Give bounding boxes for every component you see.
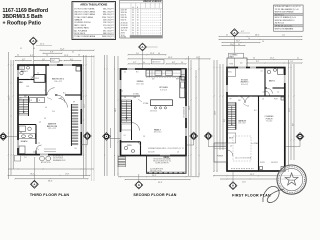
W.I.C. closet bbox=[34, 75, 45, 83]
svg-text:30: 30 bbox=[132, 20, 134, 22]
section marker A bottom (first floor) bbox=[229, 172, 237, 190]
svg-text:4-8: 4-8 bbox=[78, 55, 80, 57]
dimension lines above first floor plan bbox=[218, 35, 302, 64]
svg-text:16R: 16R bbox=[24, 96, 27, 98]
window gaps second floor bbox=[120, 68, 187, 156]
svg-text:W.I.C.: W.I.C. bbox=[51, 60, 56, 62]
bath 1 walls bbox=[265, 68, 285, 97]
section marker A bottom (third floor) bbox=[31, 157, 39, 188]
svg-text:30: 30 bbox=[132, 12, 134, 14]
svg-text:30: 30 bbox=[132, 33, 134, 35]
dining label bbox=[136, 81, 143, 85]
svg-text:7-0: 7-0 bbox=[248, 38, 250, 40]
svg-text:6-0 SL DR: 6-0 SL DR bbox=[148, 152, 154, 154]
svg-text:B: B bbox=[137, 7, 138, 9]
svg-text:4-6: 4-6 bbox=[82, 144, 84, 146]
svg-text:4-0: 4-0 bbox=[143, 62, 145, 64]
covered patio (first floor top-left) bbox=[227, 53, 247, 67]
svg-text:5-0: 5-0 bbox=[37, 73, 39, 75]
svg-text:50: 50 bbox=[137, 25, 139, 27]
bath 3 fixtures bbox=[19, 66, 34, 80]
side section marker right (first floor) bbox=[285, 133, 304, 147]
svg-text:50: 50 bbox=[137, 22, 139, 24]
svg-text:30: 30 bbox=[132, 30, 134, 32]
svg-text:4’-2”: 4’-2” bbox=[241, 31, 245, 33]
svg-text:10’0 x 11’2: 10’0 x 11’2 bbox=[241, 84, 248, 86]
section marker A top (second floor) bbox=[139, 43, 158, 68]
wall between studio and garage bbox=[227, 95, 285, 97]
tiny annotation texts plan areas bbox=[17, 35, 299, 164]
svg-text:8’-6”: 8’-6” bbox=[172, 62, 176, 64]
svg-text:TYP. INT. DR. 2-8 x 6-8 S.C.: TYP. INT. DR. 2-8 x 6-8 S.C. bbox=[275, 26, 294, 28]
svg-text:2-8: 2-8 bbox=[230, 146, 232, 148]
svg-text:9’-0” CLG: 9’-0” CLG bbox=[160, 89, 167, 91]
svg-text:2-8: 2-8 bbox=[143, 136, 145, 138]
svg-text:50: 50 bbox=[137, 30, 139, 32]
side section marker left (first floor) bbox=[204, 132, 227, 147]
svg-text:11-2: 11-2 bbox=[136, 53, 139, 55]
svg-text:11’6 x 11’2: 11’6 x 11’2 bbox=[54, 81, 62, 83]
leader arrow marks bbox=[37, 98, 248, 151]
landing / closet under stair bbox=[122, 124, 132, 130]
window and door schedule table bbox=[120, 0, 163, 38]
double door arcs into garage hall bbox=[238, 96, 252, 103]
svg-text:BEDROOM: BEDROOM bbox=[47, 126, 58, 128]
svg-text:MECH: MECH bbox=[229, 138, 233, 140]
deck below second floor bbox=[147, 156, 187, 174]
covered porch label bbox=[265, 116, 275, 123]
svg-text:TOTAL COVERED AREA: TOTAL COVERED AREA bbox=[74, 35, 96, 38]
svg-text:DINING: DINING bbox=[137, 81, 144, 83]
svg-text:GARAGE: GARAGE bbox=[238, 119, 247, 122]
svg-text:ALL FLR AREA: ALL FLR AREA bbox=[74, 29, 87, 32]
svg-text:3-0: 3-0 bbox=[82, 90, 84, 92]
svg-text:31’-6”: 31’-6” bbox=[9, 95, 11, 100]
svg-text:5-4: 5-4 bbox=[45, 107, 47, 109]
svg-text:50: 50 bbox=[137, 20, 139, 22]
svg-text:36’-0”: 36’-0” bbox=[215, 110, 217, 115]
exterior stair from deck bbox=[118, 156, 126, 168]
studio / bdrm3 labels bbox=[241, 79, 249, 86]
left dimension lines (second floor) bbox=[104, 55, 119, 176]
svg-text:25’-4”: 25’-4” bbox=[270, 58, 275, 60]
kitchen counters top bbox=[146, 69, 185, 80]
svg-text:VERIFY ROUGH OPENINGS: VERIFY ROUGH OPENINGS bbox=[275, 12, 294, 14]
svg-text:11’6 x 20’2: 11’6 x 20’2 bbox=[238, 123, 245, 125]
svg-text:W/ 2x2 PICKETS @ 4” OC: W/ 2x2 PICKETS @ 4” OC bbox=[168, 148, 185, 150]
svg-text:5-0: 5-0 bbox=[186, 90, 188, 92]
left dimension lines (first floor) bbox=[213, 60, 223, 172]
property line 2 bbox=[93, 55, 95, 181]
svg-text:2050 SH: 2050 SH bbox=[121, 9, 128, 11]
svg-text:SLOPE 1/4” PER FT: SLOPE 1/4” PER FT bbox=[155, 163, 168, 165]
svg-text:10’0 x 11’6: 10’0 x 11’6 bbox=[136, 83, 143, 85]
window gaps first floor bbox=[226, 67, 285, 92]
svg-text:33’-4”: 33’-4” bbox=[168, 57, 173, 59]
svg-text:30: 30 bbox=[132, 22, 134, 24]
svg-text:19’0 x 13’2: 19’0 x 13’2 bbox=[154, 132, 162, 134]
master bath walls bbox=[18, 125, 42, 155]
family label bbox=[154, 128, 162, 133]
svg-text:2-6: 2-6 bbox=[21, 68, 23, 70]
signature flourish bbox=[263, 186, 284, 202]
svg-text:6-8: 6-8 bbox=[285, 120, 287, 122]
svg-text:PATIO / DECK: PATIO / DECK bbox=[74, 24, 87, 27]
svg-text:48’-0”: 48’-0” bbox=[255, 35, 260, 37]
svg-text:30 ENTRY: 30 ENTRY bbox=[121, 27, 130, 29]
svg-text:3-2: 3-2 bbox=[33, 152, 35, 154]
svg-text:1ST FLR COND'T AREA: 1ST FLR COND'T AREA bbox=[74, 8, 95, 11]
stairs (first floor) bbox=[228, 103, 236, 130]
parking pad dashed bbox=[233, 136, 251, 161]
hall-bedroom wall with doors bbox=[18, 88, 81, 103]
svg-text:10’-0”: 10’-0” bbox=[230, 44, 235, 46]
svg-text:24’-2”: 24’-2” bbox=[152, 175, 157, 177]
section marker A top (first floor) bbox=[231, 29, 250, 67]
svg-text:9-2: 9-2 bbox=[226, 35, 228, 37]
svg-text:12’-6”: 12’-6” bbox=[64, 55, 69, 57]
svg-text:COVERED PATIO: COVERED PATIO bbox=[74, 27, 89, 30]
svg-text:3-0: 3-0 bbox=[285, 90, 287, 92]
side section marker right (third floor) bbox=[81, 132, 91, 145]
bedroom 2 label bbox=[52, 79, 65, 83]
svg-text:2-8: 2-8 bbox=[44, 118, 46, 120]
svg-text:FIRST FLOOR PLAN: FIRST FLOOR PLAN bbox=[232, 193, 271, 197]
first floor plan group bbox=[204, 29, 304, 198]
svg-text:8’-2”: 8’-2” bbox=[256, 61, 260, 63]
svg-text:41’-2”: 41’-2” bbox=[40, 44, 45, 46]
svg-text:AREA TABULATIONS: AREA TABULATIONS bbox=[80, 3, 107, 7]
svg-text:SECOND FLOOR PLAN: SECOND FLOOR PLAN bbox=[133, 193, 176, 197]
svg-text:4’-2”: 4’-2” bbox=[22, 59, 26, 61]
roof area below plan 1 bbox=[15, 155, 66, 164]
svg-text:5-8: 5-8 bbox=[262, 41, 264, 43]
svg-text:POST: POST bbox=[274, 99, 278, 101]
svg-text:7-4: 7-4 bbox=[46, 55, 48, 57]
roof stairs (third floor, right side) bbox=[59, 99, 79, 147]
svg-text:2264.7 SQ FT: 2264.7 SQ FT bbox=[102, 17, 114, 19]
svg-text:18’-4”: 18’-4” bbox=[30, 173, 35, 175]
svg-text:SLOPE: SLOPE bbox=[260, 162, 265, 164]
svg-text:3BDRM/3.5 Bath: 3BDRM/3.5 Bath bbox=[3, 14, 43, 20]
bottom dimension lines (second floor) bbox=[118, 175, 200, 184]
svg-text:882.1 SQ FT: 882.1 SQ FT bbox=[103, 11, 114, 13]
svg-text:POST: POST bbox=[230, 64, 234, 66]
svg-text:28’-6”: 28’-6” bbox=[115, 107, 117, 112]
svg-text:118.2 SQ FT: 118.2 SQ FT bbox=[103, 22, 114, 24]
svg-text:50: 50 bbox=[137, 17, 139, 19]
svg-text:6’-0”: 6’-0” bbox=[70, 59, 74, 61]
svg-text:THIRD FLOOR PLAN: THIRD FLOOR PLAN bbox=[30, 193, 69, 197]
svg-text:BATH 1: BATH 1 bbox=[269, 80, 275, 83]
svg-text:UP: UP bbox=[230, 99, 232, 101]
svg-text:16x7 OH: 16x7 OH bbox=[121, 30, 128, 32]
svg-text:9’-2”: 9’-2” bbox=[133, 62, 137, 64]
svg-text:20-2: 20-2 bbox=[224, 119, 226, 122]
svg-text:2ND FLR CLG: 2ND FLR CLG bbox=[275, 23, 285, 25]
svg-text:GARAGE: GARAGE bbox=[74, 18, 83, 21]
area tabulations table bbox=[72, 2, 116, 40]
svg-text:KITCHEN: KITCHEN bbox=[159, 87, 168, 89]
first floor outer walls bbox=[227, 68, 285, 172]
svg-text:DN: DN bbox=[20, 98, 22, 100]
bath 3 walls bbox=[18, 65, 34, 80]
side section marker right (second floor) bbox=[187, 132, 198, 145]
svg-text:21’-2”: 21’-2” bbox=[289, 107, 291, 112]
svg-text:5-2: 5-2 bbox=[20, 48, 22, 50]
svg-text:17’-8”: 17’-8” bbox=[65, 173, 70, 175]
svg-text:2-4: 2-4 bbox=[38, 143, 40, 145]
svg-text:7’2 x 20’2: 7’2 x 20’2 bbox=[266, 121, 273, 123]
svg-text:74.8 SQ FT: 74.8 SQ FT bbox=[104, 28, 114, 30]
bath 1 fixtures bbox=[265, 68, 284, 95]
svg-text:30: 30 bbox=[132, 15, 134, 17]
svg-text:COVERED PORCH: COVERED PORCH bbox=[74, 22, 91, 24]
svg-text:5’-6”: 5’-6” bbox=[42, 59, 46, 61]
svg-text:7’-6”: 7’-6” bbox=[290, 61, 294, 63]
svg-text:8-6: 8-6 bbox=[186, 120, 188, 122]
stairs (second floor left) bbox=[122, 100, 132, 140]
svg-text:2-8: 2-8 bbox=[263, 92, 265, 94]
svg-text:/BDRM 3: /BDRM 3 bbox=[241, 82, 249, 84]
svg-text:30: 30 bbox=[132, 9, 134, 11]
svg-text:9-6: 9-6 bbox=[158, 53, 160, 55]
svg-text:3-6: 3-6 bbox=[181, 62, 183, 64]
svg-text:2-6: 2-6 bbox=[39, 122, 41, 124]
svg-text:30: 30 bbox=[132, 25, 134, 27]
svg-text:LIN: LIN bbox=[27, 86, 29, 88]
svg-text:50: 50 bbox=[137, 12, 139, 14]
svg-text:50: 50 bbox=[137, 33, 139, 35]
svg-text:2-6: 2-6 bbox=[261, 71, 263, 73]
porch posts bbox=[260, 97, 285, 170]
svg-text:3034.9 SQ FT: 3034.9 SQ FT bbox=[102, 36, 114, 38]
svg-text:2-8: 2-8 bbox=[262, 99, 264, 101]
right dimension lines (second floor) bbox=[188, 56, 200, 176]
svg-text:DN: DN bbox=[75, 148, 77, 150]
stairs (third floor, left) bbox=[19, 96, 29, 116]
half wall below dining bbox=[121, 93, 141, 96]
svg-text:W.I.C: W.I.C bbox=[228, 72, 231, 74]
svg-text:PORCH: PORCH bbox=[266, 118, 273, 120]
svg-text:698.4 SQ FT: 698.4 SQ FT bbox=[103, 14, 114, 16]
entry porch outside left bbox=[214, 143, 227, 162]
third floor plan group bbox=[0, 37, 95, 197]
svg-text:3050 SH: 3050 SH bbox=[121, 12, 128, 14]
kitchen island bbox=[151, 100, 173, 109]
svg-text:2-8: 2-8 bbox=[31, 77, 33, 79]
bottom dimension lines (third floor) bbox=[7, 168, 94, 182]
master bath fixtures bbox=[19, 126, 36, 154]
svg-text:2-6: 2-6 bbox=[124, 135, 126, 137]
laundry closet by stairs bbox=[30, 98, 45, 103]
svg-text:2-8: 2-8 bbox=[247, 106, 249, 108]
note box left of third floor plan top bbox=[50, 58, 59, 62]
svg-text:M BATH: M BATH bbox=[21, 140, 28, 143]
svg-text:BEDROOM 2: BEDROOM 2 bbox=[52, 79, 65, 81]
svg-text:249.5 SQ FT: 249.5 SQ FT bbox=[103, 19, 114, 21]
kitchen counter right bbox=[180, 77, 185, 98]
svg-text:16 R @ 7.7”: 16 R @ 7.7” bbox=[152, 62, 161, 64]
left dimension lines (third floor) bbox=[8, 52, 14, 179]
svg-text:2-6: 2-6 bbox=[45, 90, 47, 92]
svg-text:3-0: 3-0 bbox=[17, 55, 19, 57]
svg-text:BATH 3: BATH 3 bbox=[21, 70, 27, 73]
svg-text:ON 2x10 JOISTS @ 16” OC: ON 2x10 JOISTS @ 16” OC bbox=[153, 161, 171, 163]
right dimension lines (third floor) bbox=[83, 55, 87, 178]
architect seal stamp bbox=[277, 165, 306, 194]
svg-text:16’-0 x 7’-0 O.H. DOOR: 16’-0 x 7’-0 O.H. DOOR bbox=[235, 157, 252, 159]
svg-text:6-6: 6-6 bbox=[253, 58, 255, 60]
svg-text:11-6: 11-6 bbox=[52, 111, 55, 113]
svg-text:211.6 SQ FT: 211.6 SQ FT bbox=[103, 25, 114, 27]
svg-text:TOTAL COND'T AREA: TOTAL COND'T AREA bbox=[74, 16, 93, 19]
side section marker left (third floor) bbox=[0, 133, 18, 141]
chase at plan1 top-right corner bbox=[76, 67, 81, 72]
deck railing posts bbox=[148, 172, 184, 174]
dimension lines above third floor plan bbox=[15, 48, 95, 61]
svg-text:TEXAS: TEXAS bbox=[289, 179, 296, 182]
svg-text:3-2: 3-2 bbox=[297, 58, 299, 60]
svg-text:16’ SLIDING DR: 16’ SLIDING DR bbox=[183, 106, 185, 118]
garage / porch dividing wall bbox=[258, 96, 260, 171]
svg-text:SH: SH bbox=[20, 132, 22, 134]
garage door note bbox=[231, 157, 254, 169]
svg-text:3RD FLR COND'T AREA: 3RD FLR COND'T AREA bbox=[74, 13, 95, 16]
svg-text:8-4: 8-4 bbox=[33, 48, 35, 50]
svg-text:8’-2”: 8’-2” bbox=[30, 55, 34, 57]
svg-text:9’-8”: 9’-8” bbox=[50, 51, 54, 53]
svg-text:50: 50 bbox=[137, 27, 139, 29]
svg-text:50: 50 bbox=[137, 9, 139, 11]
kitchen label bbox=[159, 87, 168, 91]
stair arrow plan1 bbox=[23, 99, 25, 114]
svg-text:1ST FLR CLG: 1ST FLR CLG bbox=[275, 15, 285, 17]
svg-text:20’-2”: 20’-2” bbox=[236, 41, 241, 43]
svg-text:28 SOLID: 28 SOLID bbox=[121, 25, 129, 27]
svg-text:5040 SL: 5040 SL bbox=[121, 20, 127, 22]
svg-text:13’1 x 12’2: 13’1 x 12’2 bbox=[48, 128, 56, 130]
svg-text:391.1 SQ FT: 391.1 SQ FT bbox=[103, 30, 114, 32]
svg-text:16R: 16R bbox=[238, 100, 241, 102]
closet first floor top-left bbox=[227, 68, 236, 77]
svg-text:11’-6”: 11’-6” bbox=[242, 182, 246, 184]
bedroom 2 left wall bbox=[45, 65, 47, 95]
svg-text:2ND FLR COND'T AREA: 2ND FLR COND'T AREA bbox=[74, 10, 95, 13]
utility closet garage bbox=[228, 133, 236, 143]
second floor outer walls bbox=[121, 69, 187, 156]
svg-text:14’-8”: 14’-8” bbox=[189, 105, 191, 110]
svg-text:50: 50 bbox=[137, 15, 139, 17]
closet marks in master bbox=[44, 149, 56, 152]
title text bbox=[3, 8, 49, 27]
stair arrow plan2 bbox=[126, 103, 128, 120]
side section marker left (second floor) bbox=[103, 133, 121, 141]
svg-text:22’-6”: 22’-6” bbox=[150, 53, 155, 55]
svg-text:HALL: HALL bbox=[19, 81, 24, 84]
svg-text:FAMILY: FAMILY bbox=[154, 128, 162, 131]
svg-text:6-0: 6-0 bbox=[82, 110, 84, 112]
right dimension lines (first floor) bbox=[288, 60, 295, 172]
dimension lines above second floor plan bbox=[127, 53, 210, 64]
svg-text:21’-4”: 21’-4” bbox=[60, 48, 65, 50]
svg-text:3-0: 3-0 bbox=[124, 72, 126, 74]
svg-text:2-8: 2-8 bbox=[177, 152, 179, 154]
svg-text:12’-2”: 12’-2” bbox=[84, 103, 86, 108]
stair arrow plan3 bbox=[231, 106, 233, 126]
entry door arc bbox=[227, 150, 233, 156]
svg-text:ON CONC. FTGS: ON CONC. FTGS bbox=[150, 170, 161, 172]
property line between lots bbox=[91, 55, 93, 181]
svg-text:6050 SL: 6050 SL bbox=[121, 15, 127, 17]
general notes table top-right bbox=[274, 5, 304, 31]
svg-text:684.2 SQ FT: 684.2 SQ FT bbox=[103, 9, 114, 11]
svg-text:4x4: 4x4 bbox=[240, 63, 242, 65]
svg-text:REF: REF bbox=[176, 79, 179, 81]
svg-text:8’-0”: 8’-0” bbox=[293, 122, 295, 126]
svg-text:30: 30 bbox=[132, 27, 134, 29]
note box above second floor plan bbox=[151, 60, 164, 64]
svg-text:2040 SH: 2040 SH bbox=[121, 17, 128, 19]
svg-text:3-0: 3-0 bbox=[122, 90, 124, 92]
svg-text:26 SOLID: 26 SOLID bbox=[121, 22, 129, 24]
svg-text:36’-0”: 36’-0” bbox=[48, 181, 53, 183]
svg-text:5-4: 5-4 bbox=[196, 57, 198, 59]
powder room (second floor) bbox=[121, 142, 141, 155]
svg-text:2-0: 2-0 bbox=[277, 92, 279, 94]
svg-text:12-4: 12-4 bbox=[282, 35, 285, 37]
svg-text:16R: 16R bbox=[134, 97, 137, 99]
bottom dimension lines (first floor) bbox=[213, 174, 302, 184]
svg-text:1167-1169 Bedford: 1167-1169 Bedford bbox=[3, 8, 49, 14]
svg-text:PORCH: PORCH bbox=[217, 156, 224, 158]
svg-text:20’-2”: 20’-2” bbox=[250, 174, 255, 176]
svg-text:+ Rooftop Patio: + Rooftop Patio bbox=[3, 21, 41, 27]
svg-text:FLR 1/8:12: FLR 1/8:12 bbox=[271, 162, 278, 164]
svg-text:DN: DN bbox=[124, 97, 126, 99]
svg-text:COVERED: COVERED bbox=[230, 54, 239, 56]
svg-text:ROOF BELOW: ROOF BELOW bbox=[53, 155, 64, 157]
second floor plan group bbox=[103, 43, 211, 197]
svg-text:UP: UP bbox=[73, 102, 75, 104]
stair landing arc bbox=[132, 123, 140, 131]
svg-text:3-4: 3-4 bbox=[238, 44, 240, 46]
window gaps on third floor walls bbox=[17, 64, 82, 155]
svg-text:2ND FLR DECK: 2ND FLR DECK bbox=[53, 158, 63, 160]
svg-text:2-8: 2-8 bbox=[60, 98, 62, 100]
svg-text:6-2: 6-2 bbox=[72, 51, 74, 53]
garage label bbox=[238, 119, 247, 124]
section marker A top (third floor) bbox=[29, 37, 52, 65]
svg-text:NOTES: NOTES bbox=[121, 36, 127, 38]
svg-text:30: 30 bbox=[132, 17, 134, 19]
third floor outer walls bbox=[18, 65, 81, 155]
master bedroom label bbox=[47, 123, 58, 131]
svg-text:3 STOOLS: 3 STOOLS bbox=[150, 111, 157, 113]
svg-text:33’-4”: 33’-4” bbox=[158, 182, 163, 184]
section marker A bottom (second floor) bbox=[135, 174, 143, 189]
